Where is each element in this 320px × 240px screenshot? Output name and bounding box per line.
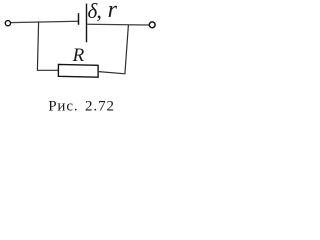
svg-text:r: r [108, 0, 118, 23]
battery G1 short plate (negative) [78, 13, 80, 25]
terminal A (left open circle) [5, 21, 10, 26]
resistor R box [58, 64, 98, 77]
wire (left terminal to battery negative plate) [11, 21, 78, 22]
wire (bottom right horizontal) [99, 72, 126, 74]
terminal B (right open circle) [149, 22, 155, 28]
svg-text:Рис. 2.72: Рис. 2.72 [48, 99, 115, 115]
wire (right junction down) [125, 25, 128, 74]
wire (bottom left horizontal) [37, 69, 59, 71]
wire (battery positive plate to right terminal) [87, 23, 149, 26]
battery G1 long plate (positive) [86, 4, 88, 43]
svg-text:R: R [72, 45, 85, 66]
wire (left junction down) [37, 21, 38, 70]
svg-text:,: , [96, 0, 102, 23]
